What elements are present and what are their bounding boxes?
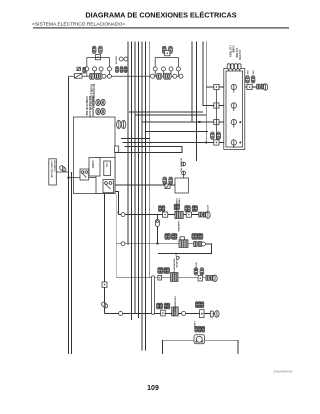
fuse terminal circle d bbox=[107, 67, 111, 71]
row4 pill a2 bbox=[160, 303, 163, 309]
right bus wire D bbox=[206, 42, 226, 88]
battery feed wire bbox=[69, 75, 182, 77]
row3 sq box a bbox=[158, 275, 162, 280]
fuse terminal circle b bbox=[93, 67, 97, 71]
right end oval bbox=[263, 84, 267, 90]
row1 switch blob bbox=[175, 212, 183, 219]
row1 pill b2 bbox=[177, 204, 180, 210]
sub cluster pill p1 bbox=[116, 67, 119, 73]
svg-text:IGN SW: IGN SW bbox=[115, 56, 117, 65]
row4 sq box a bbox=[161, 310, 166, 316]
main bus wire 7 bbox=[148, 42, 150, 278]
row2 pill b1 bbox=[192, 234, 195, 240]
row4 pill a4 bbox=[167, 303, 170, 309]
main bus wire 3 bbox=[134, 42, 136, 314]
bus bracket wire bbox=[87, 58, 110, 68]
main bus wire 4 bbox=[138, 42, 140, 319]
row2 pill a4 bbox=[174, 234, 177, 240]
wire row y122 bbox=[142, 121, 226, 123]
wire row y112 bbox=[129, 111, 203, 113]
splice oval a1 bbox=[89, 73, 92, 79]
relay K1 bbox=[103, 180, 114, 193]
row4 sq box b bbox=[200, 310, 204, 318]
row3 end oval bbox=[213, 275, 217, 282]
subtitle bbox=[32, 20, 125, 27]
row1 label a bbox=[175, 199, 180, 215]
stub pill s1 bbox=[163, 177, 167, 184]
edge connector pair bbox=[117, 120, 126, 128]
fuse drop wire e bbox=[154, 71, 156, 76]
svg-text:MOTOR: MOTOR bbox=[206, 205, 208, 214]
row3 pill a3 bbox=[164, 268, 167, 274]
svg-text:109: 109 bbox=[147, 385, 159, 392]
meter link wire bbox=[183, 175, 185, 178]
drop wire sq bbox=[102, 282, 107, 287]
row1 end label bbox=[206, 205, 208, 214]
svg-text:DIAGRAMA DE CONEXIONES ELÉCTRI: DIAGRAMA DE CONEXIONES ELÉCTRICAS bbox=[85, 11, 236, 20]
motor pills m2 bbox=[198, 326, 201, 332]
svg-text:C/UNIT: C/UNIT bbox=[91, 161, 93, 169]
page number 109 bbox=[147, 385, 159, 392]
row1 end oval bbox=[206, 212, 211, 219]
fuse drop wire a bbox=[86, 71, 88, 76]
lamp box top text extra bbox=[238, 50, 240, 60]
svg-text:BOCINA: BOCINA bbox=[194, 263, 197, 272]
label fuse text bbox=[90, 84, 96, 110]
row3 dark pair bbox=[206, 276, 214, 281]
control unit box U1 bbox=[74, 117, 116, 194]
top conn sq t1 bbox=[227, 64, 230, 71]
row1 pill c1 bbox=[185, 206, 188, 212]
row2 start circle bbox=[121, 242, 125, 246]
lamp bulb 4 bbox=[231, 140, 236, 148]
svg-text:JSAIA0584GB: JSAIA0584GB bbox=[273, 370, 292, 374]
lamp box top text bbox=[228, 46, 236, 59]
hatch connector bbox=[59, 165, 67, 172]
lamp bulb 2 bbox=[231, 103, 236, 111]
right bus wire A bbox=[191, 42, 193, 123]
pair pills rt2 bbox=[251, 76, 255, 83]
fuse box F1 bbox=[95, 55, 100, 60]
bottom bracket wire bbox=[162, 340, 238, 354]
lamp bulb 1 bbox=[231, 84, 236, 92]
svg-text:SENSOR VEL: SENSOR VEL bbox=[180, 158, 182, 173]
row2 switch blob bbox=[179, 237, 188, 248]
row3 switch blob bbox=[171, 273, 179, 282]
row1 terminal label bbox=[117, 211, 119, 215]
right pills label bbox=[246, 71, 254, 76]
fuse drop wire b bbox=[94, 71, 96, 76]
connector E4 pill bbox=[169, 46, 173, 53]
meter label bbox=[180, 158, 182, 173]
wire lower row3 bbox=[116, 277, 213, 279]
svg-text:CONECTOR ENL: CONECTOR ENL bbox=[50, 161, 52, 179]
fuse terminal circle g bbox=[169, 67, 173, 71]
svg-text:E62: E62 bbox=[246, 71, 248, 76]
stub sq bbox=[165, 184, 170, 189]
row4 start circle bbox=[119, 311, 123, 315]
motor pills m3 bbox=[202, 326, 205, 332]
wire lower row2 bbox=[116, 243, 201, 245]
svg-text:CPU: CPU bbox=[105, 163, 107, 168]
pair pills rt1 bbox=[246, 76, 250, 83]
node lamp4 bbox=[239, 142, 241, 144]
sub cluster circle d2 bbox=[124, 57, 128, 61]
wire row y115 bbox=[135, 114, 206, 116]
row1 pill a1 bbox=[159, 206, 162, 212]
splice oval h2 bbox=[101, 99, 105, 105]
top conn sq t4 bbox=[238, 64, 241, 71]
wire lower row1 bbox=[119, 214, 206, 216]
unit box B2 bbox=[175, 178, 189, 193]
splice oval h3 bbox=[96, 108, 100, 114]
row2 pill a1 bbox=[165, 234, 168, 240]
wire D drop bbox=[205, 87, 207, 143]
row2 return loop wire bbox=[158, 244, 211, 253]
lamp inner box bbox=[226, 71, 243, 147]
right sq box bbox=[247, 84, 252, 89]
wire row y142 bbox=[122, 142, 226, 144]
right dark pair bbox=[257, 84, 265, 89]
splice oval f1 bbox=[156, 73, 159, 79]
svg-text:INTERRUPTOR: INTERRUPTOR bbox=[172, 259, 174, 275]
svg-text:LAMPARA: LAMPARA bbox=[177, 221, 180, 232]
fuse box F2 bbox=[165, 51, 170, 56]
row2 pill b4 bbox=[200, 234, 203, 240]
lamp bulb 3 bbox=[231, 119, 236, 127]
fuse drop wire g bbox=[170, 71, 172, 76]
row2 end circle bbox=[201, 242, 205, 246]
svg-text:<SISTEMA ELÉCTRICO RELACIONADO: <SISTEMA ELÉCTRICO RELACIONADO> bbox=[32, 20, 125, 27]
row3 label b bbox=[194, 263, 197, 272]
joint circle e1 bbox=[151, 74, 155, 78]
svg-text:PUERTA: PUERTA bbox=[175, 259, 178, 268]
doc code bbox=[273, 370, 292, 374]
lamp outer box bbox=[224, 69, 245, 150]
node left trunk bbox=[67, 176, 69, 178]
splice oval f4 bbox=[166, 73, 169, 79]
fuse terminal circle c bbox=[99, 67, 103, 71]
motor body bbox=[194, 335, 205, 344]
fuse drop wire c bbox=[100, 71, 102, 76]
link pill bbox=[155, 219, 159, 226]
row1 pill c2 bbox=[187, 206, 190, 212]
feed sq box r1 bbox=[214, 84, 219, 89]
svg-text:LAVA: LAVA bbox=[193, 321, 196, 327]
wire lamp feed row1 bbox=[243, 86, 264, 88]
splice oval b1 bbox=[95, 73, 98, 79]
component A box bbox=[80, 169, 89, 180]
row4 end pill bbox=[210, 311, 213, 317]
fuse terminal circle f bbox=[162, 67, 166, 71]
row4 connector hatch bbox=[101, 301, 109, 308]
row2 pill b2 bbox=[194, 234, 197, 240]
sub box B1 text bbox=[91, 161, 93, 169]
wire row y138 bbox=[121, 138, 150, 140]
svg-text:LUZ TRAS: LUZ TRAS bbox=[228, 46, 231, 58]
svg-text:DE DATOS: DE DATOS bbox=[53, 161, 56, 173]
node on y122 bbox=[198, 121, 200, 123]
row1 below label bbox=[177, 221, 180, 232]
relay feed wire bbox=[69, 177, 97, 179]
meter circle a bbox=[182, 162, 186, 166]
splice oval h1 bbox=[96, 99, 100, 105]
row3 sq box b bbox=[198, 275, 202, 281]
row2 tiny meter bbox=[176, 256, 179, 259]
row1 sq box a bbox=[163, 212, 168, 217]
main bus wire 6 bbox=[145, 42, 147, 351]
bus bracket wire 2 bbox=[155, 58, 178, 68]
label box L1 text bbox=[105, 163, 107, 168]
sub cluster circle d1 bbox=[119, 57, 123, 61]
svg-text:COMB: COMB bbox=[232, 46, 234, 53]
svg-text:B: B bbox=[117, 211, 119, 215]
row4 switch blob bbox=[172, 307, 179, 316]
main bus wire 2 bbox=[131, 42, 133, 321]
row4 pill a3 bbox=[164, 303, 167, 309]
header rule bbox=[33, 27, 289, 29]
inner unit box bbox=[96, 158, 115, 194]
row3 label a bbox=[172, 259, 178, 275]
feed pill f2 bbox=[217, 132, 221, 139]
row2 pill b3 bbox=[198, 234, 201, 240]
wire row y146 jog bbox=[115, 146, 182, 152]
svg-text:LUZ POS: LUZ POS bbox=[238, 50, 240, 60]
splice oval b3 bbox=[99, 73, 102, 79]
feed column wire bbox=[215, 90, 217, 140]
wire row y131 bbox=[145, 130, 208, 132]
node on y142 bbox=[205, 141, 207, 143]
edge tab bbox=[115, 146, 119, 152]
left label wire bbox=[56, 171, 68, 173]
feed pill f1 bbox=[211, 132, 215, 139]
left trunk wire 2 bbox=[70, 172, 72, 354]
motor pills m1 bbox=[195, 326, 198, 332]
fuse drop wire h bbox=[177, 71, 179, 76]
box feed stub upper bbox=[115, 184, 175, 186]
row2 dark pair bbox=[194, 242, 202, 247]
splice oval f3 bbox=[163, 73, 166, 79]
sub cluster pill p2 bbox=[120, 67, 123, 73]
row1 pill d2 bbox=[195, 206, 198, 212]
top conn sq t2 bbox=[231, 64, 234, 71]
text block above box bbox=[85, 96, 94, 124]
main bus wire 1 bbox=[127, 42, 129, 246]
feed sq box r4 bbox=[214, 140, 219, 145]
row2 pill a2 bbox=[168, 234, 171, 240]
row3 tall resistor bbox=[151, 276, 154, 314]
fuse drop wire d bbox=[108, 71, 110, 76]
row3 pill a2 bbox=[160, 268, 163, 274]
connector E2 pill bbox=[99, 46, 103, 53]
row3 pill a1 bbox=[158, 268, 161, 274]
left trunk wire 1 bbox=[68, 76, 70, 354]
svg-text:ENCENDEDOR: ENCENDEDOR bbox=[173, 296, 175, 312]
feed sq box r3 bbox=[214, 120, 219, 125]
row2 tiny label bbox=[174, 253, 177, 257]
battery terminal sq bbox=[77, 67, 80, 70]
joint circle c1 bbox=[102, 74, 106, 78]
row3 pill a4 bbox=[167, 268, 170, 274]
sub cluster label bbox=[115, 56, 117, 65]
joint circle c2 bbox=[107, 74, 111, 78]
row4 pill b1 bbox=[195, 302, 198, 308]
svg-text:A/C: A/C bbox=[174, 253, 177, 257]
splice oval b2 bbox=[97, 73, 100, 79]
svg-text:E63: E63 bbox=[252, 71, 254, 76]
row1 start circle bbox=[121, 213, 125, 217]
row1 pill d1 bbox=[192, 206, 195, 212]
fusible link FL1 bbox=[74, 73, 82, 78]
joint circle g1 bbox=[173, 74, 177, 78]
row4 pill a1 bbox=[157, 303, 160, 309]
label box L1 bbox=[104, 161, 111, 176]
box feed stub lower bbox=[115, 191, 119, 214]
row4 end oval bbox=[215, 311, 219, 318]
fuse terminal circle a bbox=[85, 67, 89, 71]
row4 label a bbox=[173, 296, 175, 312]
node lamp3 bbox=[239, 121, 241, 123]
relay drop wire bbox=[104, 194, 106, 314]
box edge drop wire bbox=[115, 194, 117, 278]
row4 mid circle bbox=[182, 311, 186, 315]
sub box B1 bbox=[89, 158, 100, 177]
battery pill bbox=[83, 67, 86, 73]
left label box bbox=[49, 159, 57, 185]
row2 pill a3 bbox=[172, 234, 175, 240]
left label text bbox=[50, 161, 56, 179]
svg-text:LUZ FRE: LUZ FRE bbox=[235, 48, 237, 58]
joint circle g2 bbox=[179, 74, 183, 78]
wire lower row4 bbox=[105, 312, 215, 314]
title bbox=[85, 11, 236, 20]
fuse terminal circle e bbox=[153, 67, 157, 71]
top conn sq t3 bbox=[234, 64, 237, 71]
row3 pill b1 bbox=[194, 268, 198, 275]
feed sq box r2 bbox=[214, 103, 219, 108]
main bus wire 5 bbox=[141, 42, 143, 351]
splice oval f2 bbox=[159, 73, 162, 79]
inter-row link wire bbox=[156, 215, 158, 244]
fuse drop wire f bbox=[163, 71, 165, 76]
connector E1 pill bbox=[92, 46, 96, 53]
right bus wire B bbox=[195, 42, 197, 162]
sub cluster pill p3 bbox=[124, 67, 127, 73]
row4 pill b3 bbox=[201, 302, 204, 308]
connector E3 pill bbox=[162, 46, 166, 53]
row1 dark pair bbox=[199, 212, 207, 217]
row4 pill b2 bbox=[198, 302, 201, 308]
row1 pill a2 bbox=[162, 206, 165, 212]
splice oval a2 bbox=[91, 73, 94, 79]
row1 pill b1 bbox=[174, 204, 177, 210]
fuse terminal circle h bbox=[176, 67, 180, 71]
node row2 link bbox=[156, 242, 158, 244]
row1 sq box b bbox=[186, 212, 191, 217]
motor label bbox=[193, 321, 196, 327]
stub pill s2 bbox=[169, 177, 173, 184]
right bus wire C bbox=[203, 42, 226, 106]
splice oval f5 bbox=[168, 73, 171, 79]
splice oval h4 bbox=[101, 108, 105, 114]
row3 pill b2 bbox=[200, 268, 204, 275]
meter circle b bbox=[182, 171, 186, 175]
